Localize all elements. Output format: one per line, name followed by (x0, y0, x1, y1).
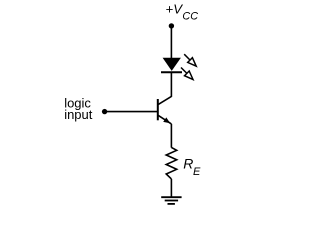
LED emission arrow 1 (184, 54, 196, 66)
node logic input terminal dot (102, 109, 107, 114)
LED D1 triangle (anode) (163, 58, 181, 71)
svg-text:CC: CC (182, 10, 198, 22)
resistor RE zigzag (166, 147, 177, 179)
svg-text:R: R (183, 156, 193, 172)
node +VCC terminal dot (169, 23, 174, 28)
svg-text:input: input (64, 107, 93, 122)
wire LED cathode to transistor collector (170, 72, 172, 97)
transistor Q1 (NPN) (158, 96, 172, 124)
wire resistor RE to ground (170, 179, 172, 197)
wire from +VCC terminal to LED anode (170, 26, 172, 58)
node logic input label (64, 96, 93, 123)
wire base: input dot to transistor base (105, 111, 158, 113)
emitter lead (158, 115, 171, 124)
ground (161, 197, 181, 204)
node +VCC label (166, 1, 199, 22)
LED emission arrow 2 (181, 68, 193, 80)
transistor Q1 emitter arrowhead (163, 117, 170, 123)
label RE (183, 156, 201, 178)
collector lead (158, 96, 171, 104)
wire emitter to resistor RE (170, 124, 172, 148)
base bar (157, 99, 159, 120)
LED D1 cathode bar (161, 71, 182, 73)
svg-text:E: E (193, 166, 201, 178)
